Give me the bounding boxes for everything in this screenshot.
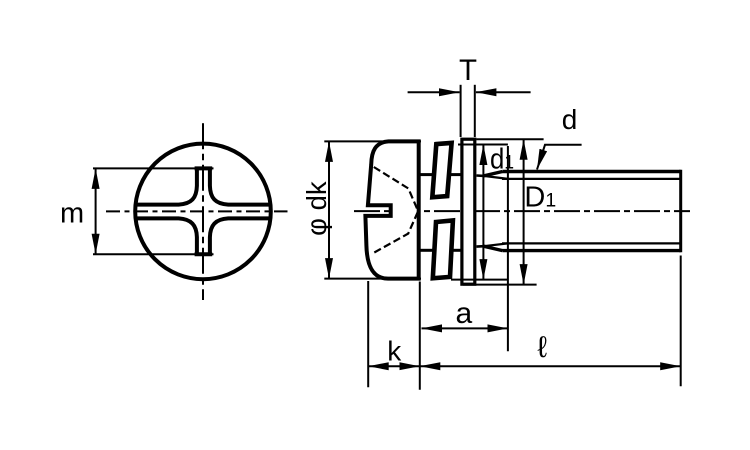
- spring washer lower half: [433, 220, 453, 278]
- thread end face: [679, 170, 682, 253]
- shank line upper (spring washer to flat washer): [448, 173, 462, 176]
- a dimension line: [422, 327, 508, 329]
- horizontal centerline of head circle: [106, 210, 288, 212]
- l extension line right: [680, 256, 682, 387]
- D1 extension line bottom: [463, 284, 537, 286]
- phi dk extension line bottom: [324, 278, 421, 280]
- shank line lower (head to spring washer): [421, 249, 434, 252]
- thread minor diameter top line: [502, 178, 680, 180]
- thread runout top (major line tapering to vertex): [484, 172, 503, 176]
- T arrow right: [476, 91, 531, 93]
- thread major diameter top line: [503, 170, 681, 173]
- shank stub to runout vertex top: [477, 174, 485, 177]
- k extension line right (bearing face): [419, 282, 421, 390]
- phi dk dimension line: [328, 141, 330, 278]
- m dimension line: [95, 168, 97, 254]
- phi dk extension line top: [324, 140, 421, 142]
- screw head profile: [365, 141, 418, 278]
- spring washer upper half: [432, 143, 451, 197]
- m extension line top: [93, 167, 214, 169]
- thread runout bottom (major line tapering to vertex): [484, 246, 503, 250]
- d1 extension line bottom: [451, 279, 508, 281]
- thread major diameter bottom line: [503, 249, 681, 252]
- thread minor diameter bottom line: [502, 242, 680, 244]
- k extension line left: [367, 281, 369, 387]
- main centerline of screw axis: [354, 210, 690, 212]
- thread runout top (minor line tapering to vertex): [484, 176, 508, 179]
- m extension line bottom: [93, 253, 214, 255]
- svg-text:m: m: [60, 198, 84, 230]
- T extension line right: [474, 85, 476, 137]
- D1 extension line top: [476, 138, 543, 140]
- cross recess (phillips): [136, 168, 271, 254]
- k dimension line: [368, 365, 420, 367]
- a extension line right: [507, 146, 509, 351]
- d leader line with arrow: [537, 145, 582, 170]
- T arrow left: [408, 91, 460, 93]
- l dimension line: [420, 365, 681, 367]
- d1 extension line top: [458, 144, 508, 146]
- T extension line left: [460, 85, 462, 137]
- thread runout bottom (minor line tapering to vertex): [484, 243, 508, 246]
- hidden recess line upper: [374, 167, 418, 210]
- svg-text:ℓ: ℓ: [538, 331, 548, 364]
- shank stub to runout vertex bottom: [477, 245, 485, 248]
- svg-text:a: a: [456, 297, 473, 330]
- svg-text:d: d: [562, 104, 578, 135]
- svg-text:k: k: [387, 335, 402, 366]
- shank line upper (head to spring washer): [421, 173, 434, 176]
- svg-text:φ dk: φ dk: [301, 181, 332, 236]
- d1 dimension line: [482, 145, 484, 280]
- head outline circle: [135, 144, 271, 280]
- flat washer: [462, 139, 475, 284]
- svg-text:T: T: [459, 54, 477, 87]
- D1 dimension line: [523, 139, 525, 284]
- hidden recess line lower: [374, 212, 418, 253]
- shank line lower (spring washer to flat washer): [447, 249, 462, 252]
- vertical centerline of head circle: [202, 123, 204, 300]
